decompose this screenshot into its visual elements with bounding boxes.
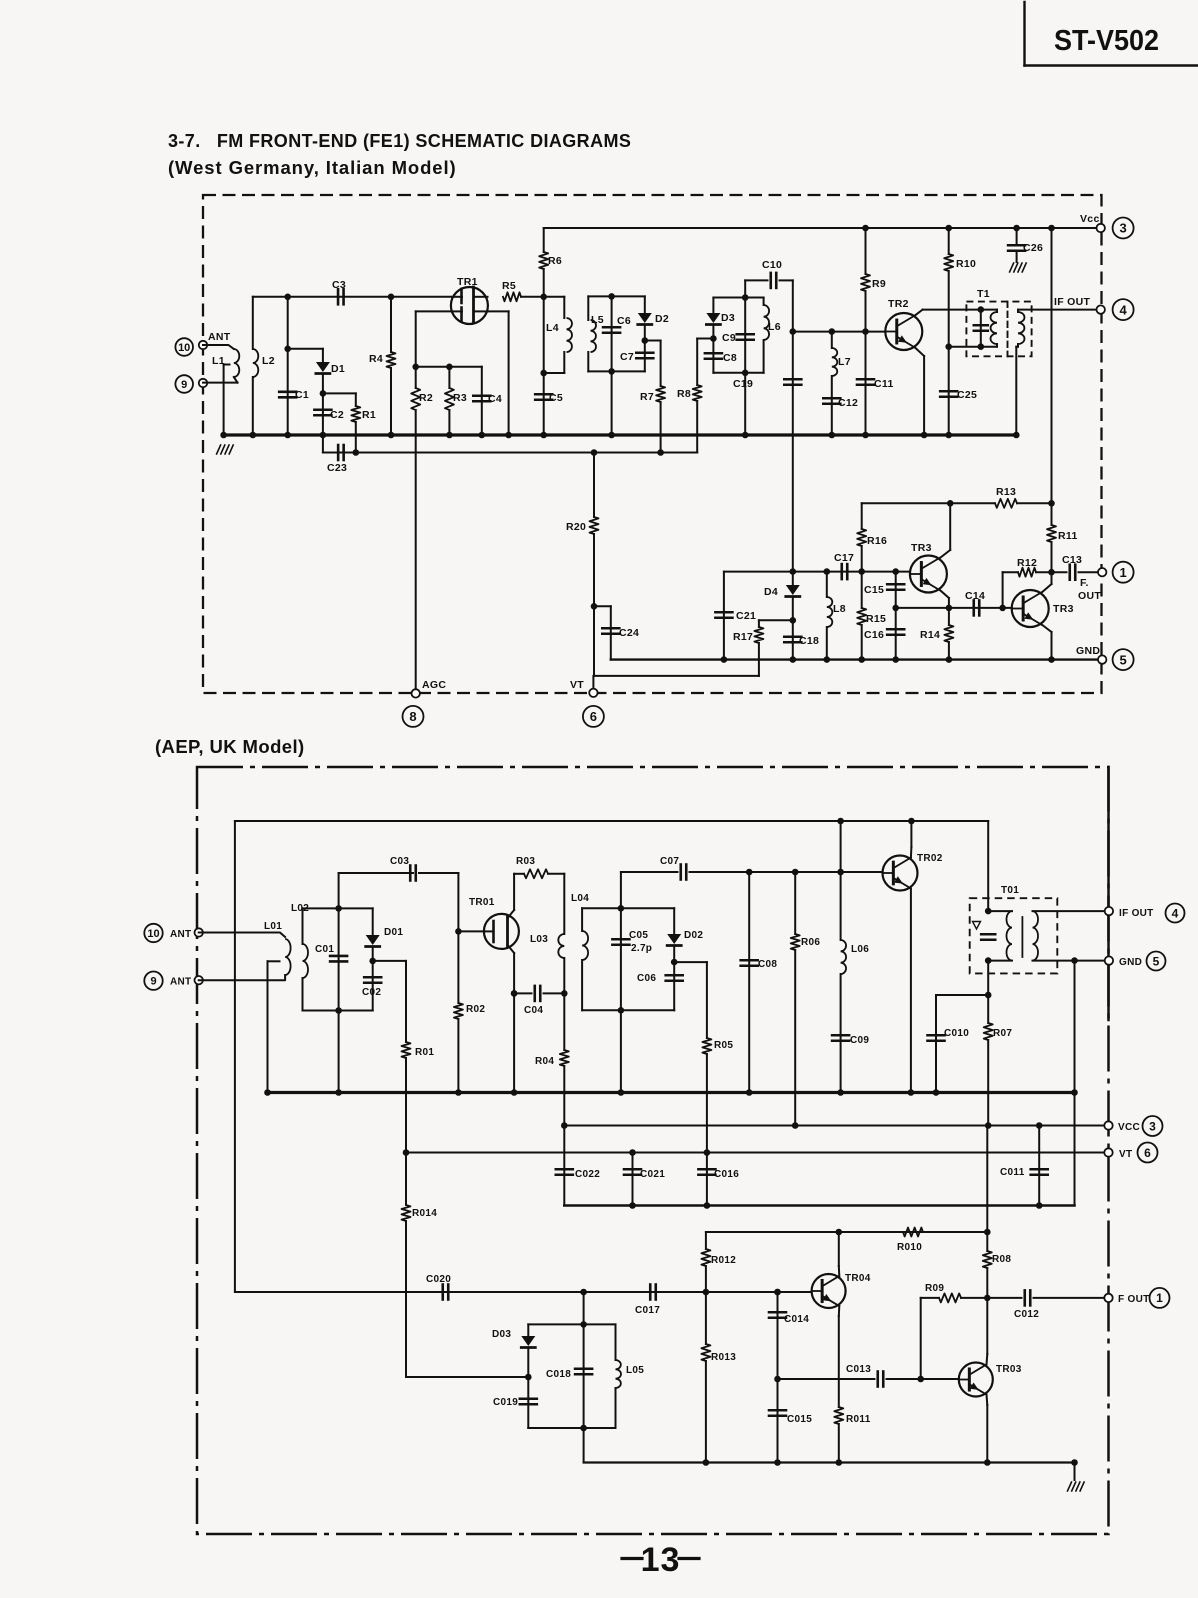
- svg-text:3: 3: [1149, 1119, 1156, 1133]
- svg-text:5: 5: [1119, 652, 1126, 667]
- wire R13: [862, 500, 995, 507]
- gnd riser right: [1071, 961, 1078, 1206]
- svg-text:4: 4: [1119, 302, 1127, 317]
- resistor R1: [323, 393, 376, 455]
- resistor R7: [640, 341, 665, 456]
- svg-text:IF OUT: IF OUT: [1119, 908, 1154, 919]
- svg-text:C020: C020: [426, 1274, 451, 1285]
- GND terminal top: [1076, 645, 1106, 664]
- subtitle AEP UK model: [155, 736, 305, 757]
- svg-text:R5: R5: [502, 280, 516, 292]
- svg-text:10: 10: [147, 928, 159, 940]
- svg-text:C3: C3: [332, 279, 346, 291]
- transformer T01 box: [970, 885, 1058, 973]
- resistor R3: [445, 367, 467, 439]
- svg-text:R014: R014: [412, 1208, 437, 1219]
- svg-text:C9: C9: [722, 332, 736, 344]
- svg-text:R03: R03: [516, 856, 535, 867]
- capacitor C14: [965, 590, 985, 615]
- svg-text:L7: L7: [838, 356, 851, 368]
- circle 5 top: [1113, 649, 1134, 670]
- svg-text:ANT: ANT: [170, 977, 191, 988]
- svg-text:C8: C8: [723, 352, 737, 364]
- svg-text:C022: C022: [575, 1169, 600, 1180]
- inductor L1: [203, 345, 239, 383]
- transistor TR2: [885, 298, 922, 350]
- resistor R08: [983, 1126, 1012, 1298]
- capacitor C020: [426, 1274, 451, 1300]
- svg-text:D3: D3: [721, 312, 735, 324]
- svg-text:3-7. FM FRONT-END (FE1) SCHE: 3-7. FM FRONT-END (FE1) SCHEMATIC DIAGRA…: [168, 131, 631, 151]
- capacitor C1: [279, 294, 309, 439]
- circle 3 top: [1113, 218, 1134, 239]
- resistor R013: [701, 1292, 736, 1463]
- svg-text:C016: C016: [714, 1169, 739, 1180]
- circle 1 bottom: [1150, 1288, 1170, 1308]
- svg-text:R15: R15: [866, 613, 886, 625]
- TR03 collector: [986, 1298, 989, 1365]
- circle 3 bottom: [1143, 1116, 1163, 1136]
- GND terminal bottom: [1105, 956, 1142, 968]
- transistor TR01 fet: [469, 874, 519, 994]
- inductor L01: [199, 921, 291, 980]
- TR2 emitter wire: [915, 348, 927, 439]
- svg-text:C11: C11: [874, 378, 894, 390]
- svg-text:ANT: ANT: [208, 331, 231, 343]
- svg-text:D2: D2: [655, 313, 669, 325]
- circle 8: [403, 706, 424, 727]
- svg-text:3: 3: [1119, 221, 1126, 236]
- capacitor C019: [493, 1374, 537, 1428]
- capacitor C5: [535, 297, 563, 439]
- resistor R06: [791, 872, 821, 1126]
- capacitor C13: [1052, 554, 1103, 580]
- svg-text:R13: R13: [996, 486, 1016, 498]
- svg-text:OUT: OUT: [1078, 590, 1101, 602]
- circle 4 top: [1113, 299, 1134, 320]
- svg-text:C010: C010: [944, 1028, 969, 1039]
- T01 core: [1021, 917, 1023, 957]
- circle 9: [175, 375, 193, 393]
- circle 1 top: [1113, 562, 1134, 583]
- svg-text:TR02: TR02: [917, 853, 943, 864]
- svg-text:C18: C18: [799, 635, 819, 647]
- svg-text:VT: VT: [570, 679, 584, 691]
- svg-text:9: 9: [150, 976, 156, 988]
- capacitor C2: [314, 390, 344, 438]
- svg-text:R11: R11: [1058, 530, 1078, 542]
- page header rule ST-V502 box: [1025, 2, 1198, 66]
- svg-text:R09: R09: [925, 1283, 944, 1294]
- capacitor C014: [769, 1289, 809, 1379]
- capacitor C6: [603, 293, 631, 438]
- svg-text:R10: R10: [956, 258, 976, 270]
- capacitor C01: [315, 873, 347, 1096]
- L01 tap to bus: [264, 961, 279, 1095]
- transistor TR04: [812, 1273, 871, 1308]
- svg-text:TR01: TR01: [469, 897, 495, 908]
- osc tank top line: [528, 1321, 615, 1328]
- svg-text:C021: C021: [640, 1169, 665, 1180]
- svg-text:R06: R06: [801, 937, 820, 948]
- svg-text:R07: R07: [993, 1028, 1012, 1039]
- svg-text:C03: C03: [390, 856, 409, 867]
- emitter wire y=608: [896, 605, 1012, 612]
- main bus bottom: [268, 1091, 1075, 1094]
- terminal 10 ANT: [199, 331, 231, 349]
- svg-text:TR03: TR03: [996, 1364, 1022, 1375]
- svg-text:6: 6: [590, 709, 597, 724]
- rail wire y=821: [235, 818, 988, 825]
- inductor L4: [544, 297, 572, 373]
- svg-text:L05: L05: [626, 1365, 644, 1376]
- terminal 9: [199, 379, 207, 387]
- circle 9 bottom: [144, 972, 162, 990]
- svg-text:C015: C015: [787, 1414, 812, 1425]
- svg-text:C013: C013: [846, 1364, 871, 1375]
- svg-text:R04: R04: [535, 1056, 554, 1067]
- Vcc terminal: [1080, 213, 1105, 232]
- svg-text:D1: D1: [331, 363, 345, 375]
- gnd bus mixer: [611, 658, 1102, 660]
- svg-text:C7: C7: [620, 351, 634, 363]
- capacitor C05 bus link: [618, 1010, 625, 1095]
- transformer T1 box: [966, 288, 1031, 356]
- svg-text:R7: R7: [640, 391, 654, 403]
- resistor R05: [674, 962, 733, 1152]
- svg-text:R01: R01: [415, 1047, 434, 1058]
- capacitor C25: [940, 347, 977, 439]
- inductor L8: [824, 568, 846, 663]
- svg-text:TR3: TR3: [911, 542, 932, 554]
- TR04 emitter: [838, 1306, 841, 1407]
- capacitor C021: [624, 1153, 665, 1209]
- svg-text:C06: C06: [637, 973, 656, 984]
- left loop wire: [234, 821, 236, 1292]
- osc section wire y=572: [724, 571, 910, 573]
- transistor TR02: [883, 853, 943, 891]
- ground symbol left: [217, 445, 234, 454]
- capacitor C11: [857, 332, 894, 439]
- F OUT terminal bottom: [1104, 1294, 1149, 1305]
- svg-text:GND: GND: [1076, 645, 1100, 657]
- TR3b collector: [1042, 572, 1052, 592]
- svg-text:TR3: TR3: [1053, 603, 1074, 615]
- inductor L5: [588, 296, 645, 371]
- R02 column: [455, 873, 462, 1003]
- L02 tank top: [303, 905, 373, 912]
- wire R5 to L4: [521, 294, 564, 301]
- ANT terminal 9 bottom: [170, 976, 203, 988]
- resistor R07: [984, 1023, 1013, 1126]
- circle 6 bottom: [1138, 1143, 1158, 1163]
- svg-text:R12: R12: [1017, 557, 1037, 569]
- capacitor C03: [339, 856, 459, 881]
- svg-text:C26: C26: [1023, 242, 1043, 254]
- svg-text:R05: R05: [714, 1040, 733, 1051]
- L02 tank bottom: [303, 1007, 373, 1014]
- svg-text:13: 13: [641, 1541, 681, 1579]
- capacitor C011: [1000, 1126, 1048, 1206]
- L04 tank top: [582, 905, 674, 912]
- resistor R13: [995, 486, 1055, 508]
- svg-text:L03: L03: [530, 934, 548, 945]
- resistor R11: [1047, 503, 1078, 575]
- resistor R17: [733, 620, 793, 676]
- circle 4 bottom: [1166, 904, 1185, 923]
- resistor R011: [834, 1407, 870, 1463]
- resistor R01: [373, 961, 435, 1153]
- transistor TR03: [959, 1363, 1022, 1397]
- svg-text:C21: C21: [736, 610, 756, 622]
- resistor R02: [454, 1003, 485, 1096]
- svg-text:(West Germany, Italian Model): (West Germany, Italian Model): [168, 157, 457, 178]
- resistor R03: [514, 856, 564, 878]
- svg-text:C4: C4: [488, 393, 502, 405]
- svg-text:8: 8: [409, 709, 416, 724]
- ground bus top schematic: [224, 433, 1017, 436]
- page number: [622, 1541, 699, 1579]
- svg-text:(AEP, UK Model): (AEP, UK Model): [155, 736, 305, 757]
- circle 6 top: [583, 706, 604, 727]
- svg-text:C014: C014: [784, 1314, 809, 1325]
- svg-text:C15: C15: [864, 584, 884, 596]
- capacitor C08: [741, 872, 778, 1096]
- AGC line C23 line y=452: [323, 452, 697, 454]
- svg-text:L04: L04: [571, 893, 589, 904]
- svg-text:C09: C09: [850, 1035, 869, 1046]
- TR01 source column: [511, 990, 518, 1096]
- resistor R9: [861, 225, 886, 332]
- capacitor C9: [722, 294, 754, 438]
- T1 primary: [974, 306, 997, 350]
- resistor R8: [677, 339, 713, 453]
- capacitor C06: [637, 959, 683, 1011]
- svg-text:D4: D4: [764, 586, 778, 598]
- svg-text:AGC: AGC: [422, 679, 446, 691]
- T1 primary bottom wire: [945, 343, 980, 350]
- gnd return line: [564, 1202, 1074, 1209]
- osc gnd line: [584, 1459, 1075, 1466]
- svg-text:C19: C19: [733, 378, 753, 390]
- T1 secondary: [1013, 310, 1101, 439]
- section title: [168, 131, 631, 151]
- svg-text:L06: L06: [851, 944, 869, 955]
- diode D03: [492, 1324, 535, 1377]
- TR04 feed line: [706, 1229, 991, 1236]
- svg-text:R1: R1: [362, 409, 376, 421]
- TR1 gate2 wire: [416, 311, 452, 366]
- svg-text:C6: C6: [617, 315, 631, 327]
- svg-text:R08: R08: [992, 1254, 1011, 1265]
- svg-text:R8: R8: [677, 388, 691, 400]
- transistor TR3b: [1012, 590, 1074, 627]
- TR1 source wire: [488, 311, 512, 438]
- svg-text:C017: C017: [635, 1305, 660, 1316]
- svg-text:10: 10: [178, 342, 190, 354]
- IF OUT terminal top: [1054, 296, 1105, 314]
- mixer base wire y=332: [790, 328, 886, 335]
- resistor R10: [944, 225, 976, 347]
- mixer wire y=872 bottom: [621, 871, 678, 873]
- transistor TR3a: [910, 542, 947, 593]
- vcc feed vertical to R13: [1048, 225, 1055, 504]
- capacitor C21: [715, 572, 756, 663]
- capacitor C022: [556, 1126, 600, 1206]
- VT line: [403, 1149, 1109, 1156]
- resistor R2: [411, 367, 433, 694]
- svg-text:L4: L4: [546, 322, 559, 334]
- resistor R4: [369, 294, 396, 439]
- VCC terminal bottom: [1104, 1121, 1140, 1133]
- L1 ground tap wire: [220, 365, 229, 439]
- svg-text:C05: C05: [629, 930, 648, 941]
- svg-text:R2: R2: [419, 392, 433, 404]
- diode D1: [288, 349, 345, 394]
- svg-text:C13: C13: [1062, 554, 1082, 566]
- svg-text:F.: F.: [1080, 577, 1089, 589]
- resistor R5: [502, 280, 521, 301]
- svg-text:C018: C018: [546, 1369, 571, 1380]
- svg-text:L01: L01: [264, 921, 282, 932]
- svg-text:Vcc: Vcc: [1080, 213, 1100, 225]
- TR3a collector: [940, 503, 950, 558]
- inductor L04: [571, 893, 589, 1010]
- svg-text:R010: R010: [897, 1242, 922, 1253]
- svg-text:R16: R16: [867, 535, 887, 547]
- capacitor C15: [864, 568, 904, 608]
- svg-text:C2: C2: [330, 409, 344, 421]
- svg-text:D03: D03: [492, 1329, 511, 1340]
- svg-text:1: 1: [1156, 1291, 1163, 1305]
- svg-text:L2: L2: [262, 355, 275, 367]
- TR02 emitter: [908, 889, 915, 1096]
- resistor R15: [857, 572, 886, 663]
- resistor R012: [701, 1232, 736, 1292]
- capacitor C7: [620, 337, 653, 371]
- capacitor C05: [612, 872, 652, 1010]
- svg-text:R3: R3: [453, 392, 467, 404]
- osc feedback line: [235, 1289, 812, 1296]
- svg-text:L5: L5: [591, 314, 604, 326]
- svg-text:F OUT: F OUT: [1118, 1294, 1150, 1305]
- inductor L6: [764, 298, 781, 373]
- Vcc rail top: [544, 227, 1101, 229]
- svg-text:2.7p: 2.7p: [631, 943, 652, 954]
- diode D4: [764, 568, 800, 620]
- ANT terminal 10 bottom: [170, 928, 203, 940]
- svg-text:C08: C08: [758, 959, 777, 970]
- capacitor C10: [745, 259, 793, 332]
- subtitle west germany italian model: [168, 157, 457, 178]
- VT terminal bottom: [1104, 1148, 1132, 1160]
- svg-text:C25: C25: [957, 389, 977, 401]
- svg-text:C01: C01: [315, 944, 334, 955]
- TR3b emitter: [1042, 625, 1055, 663]
- svg-text:C011: C011: [1000, 1167, 1025, 1178]
- resistor R09: [921, 1283, 988, 1379]
- circle 10: [175, 338, 193, 356]
- svg-text:C019: C019: [493, 1397, 518, 1408]
- inductor L7: [823, 332, 858, 439]
- VT wire: [593, 676, 759, 693]
- AGC terminal: [412, 679, 447, 698]
- inductor L05: [616, 1324, 645, 1428]
- TR2 collector wire: [915, 310, 981, 316]
- capacitor C19: [733, 332, 801, 572]
- top schematic dashed border: [203, 195, 1102, 693]
- capacitor C04: [511, 986, 565, 1016]
- svg-text:5: 5: [1153, 954, 1160, 968]
- svg-text:R6: R6: [548, 255, 562, 267]
- R07 column: [985, 961, 992, 1023]
- F OUT terminal: [1078, 568, 1106, 602]
- svg-text:R011: R011: [846, 1414, 871, 1425]
- svg-text:ANT: ANT: [170, 929, 191, 940]
- resistor R04: [535, 990, 569, 1125]
- R20 resistor: [566, 449, 599, 676]
- osc tank bottom line: [528, 1425, 615, 1432]
- capacitor C17: [834, 552, 854, 579]
- svg-text:C14: C14: [965, 590, 985, 602]
- svg-text:R4: R4: [369, 353, 383, 365]
- svg-text:C5: C5: [549, 392, 563, 404]
- svg-text:TR1: TR1: [457, 276, 478, 288]
- svg-text:C10: C10: [762, 259, 782, 271]
- diode D01: [366, 908, 404, 961]
- capacitor C02: [362, 958, 381, 1011]
- svg-text:VCC: VCC: [1118, 1122, 1140, 1133]
- svg-text:4: 4: [1172, 906, 1179, 920]
- svg-text:TR04: TR04: [845, 1273, 871, 1284]
- svg-text:9: 9: [181, 379, 187, 391]
- svg-text:C04: C04: [524, 1005, 543, 1016]
- TR04 collector: [838, 1232, 841, 1276]
- resistor R12: [1003, 557, 1052, 608]
- svg-text:R012: R012: [711, 1255, 736, 1266]
- resistor R14: [920, 608, 953, 663]
- svg-text:R20: R20: [566, 521, 586, 533]
- gate1 wire y=297: [253, 296, 451, 298]
- svg-text:C012: C012: [1014, 1309, 1039, 1320]
- capacitor C010: [928, 995, 989, 1096]
- svg-text:R17: R17: [733, 631, 753, 643]
- capacitor C18: [784, 617, 819, 663]
- inductor L02: [291, 903, 309, 1011]
- inductor L06: [832, 821, 869, 1096]
- svg-text:R14: R14: [920, 629, 940, 641]
- right border solid segment: [1107, 767, 1110, 1020]
- TR03 emitter: [984, 1395, 991, 1466]
- svg-text:R013: R013: [711, 1352, 736, 1363]
- circle 10 bottom: [144, 924, 162, 942]
- svg-text:D02: D02: [684, 930, 703, 941]
- svg-text:L6: L6: [768, 321, 781, 333]
- diode D02: [667, 908, 703, 962]
- diode D3: [706, 298, 763, 339]
- svg-text:IF OUT: IF OUT: [1054, 296, 1090, 308]
- svg-text:6: 6: [1144, 1146, 1151, 1160]
- svg-text:C16: C16: [864, 629, 884, 641]
- transistor TR1: [451, 276, 488, 324]
- capacitor C26: [1008, 225, 1043, 272]
- capacitor C013: [846, 1364, 959, 1387]
- svg-text:T01: T01: [1001, 885, 1019, 896]
- capacitor C24: [594, 606, 639, 659]
- inductor L2: [250, 297, 275, 439]
- IF OUT terminal bottom: [1105, 907, 1154, 919]
- VCC line: [561, 1122, 1109, 1129]
